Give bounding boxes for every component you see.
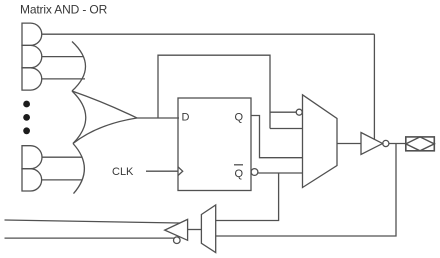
wire CLK to flip-flop [146,170,178,172]
wire output feedback down and left [216,144,396,237]
inversion bubble at mux input 1 [296,109,302,115]
svg-text:Q: Q [235,168,244,180]
wire feedback complement line to matrix [5,237,175,239]
io pad rhombus [406,137,435,151]
matrix ellipsis dot 3 [23,127,30,134]
wire A3 output to OR [42,78,85,80]
wire Q output to mux input 3 [251,116,303,158]
wire mux output to inverter [337,143,361,145]
and gate B2 [22,169,42,191]
and gate B1 (bottom group) [22,146,42,169]
inversion bubble on feedback buffer complement output [174,237,181,244]
wire A2 output to OR [42,56,84,58]
inversion bubble at Qbar output [251,169,258,176]
svg-text:Matrix AND - OR: Matrix AND - OR [20,3,108,17]
OR gate upper body arc to tip [72,91,137,118]
svg-text:Q: Q [235,112,244,124]
feedback select mux U4 [201,205,215,253]
OR gate scalloped input edge, top arc [72,42,86,92]
D flip-flop U1 body [178,98,251,191]
inversion bubble at inverter output [383,140,389,146]
io pad P1 [406,137,435,151]
wire Qbar to mux input 4 [258,172,303,174]
and gate A3 [22,68,42,90]
output select mux U2 [303,95,338,188]
wire OE vertical to tristate inverter [373,34,375,140]
wire feedback true line to matrix [5,220,181,223]
svg-text:D: D [182,112,190,124]
svg-text:CLK: CLK [112,166,134,178]
overline of Qbar [234,164,243,166]
and gate A1 (top) [22,23,42,45]
feedback buffer U5 (points left) [165,219,188,240]
and gate A2 [22,45,42,67]
clock triangle on U1 [178,167,183,176]
OR gate lower body arc to tip [73,118,137,144]
wire OR output to D input [137,117,179,119]
node: D-branch junction riser [158,55,270,128]
wire branch to mux input 1 (via bubble) [270,111,296,113]
tristate output inverter U3 [361,133,383,155]
wire branch to mux input 2 [270,128,303,130]
OR gate scallop, middle arc [72,91,86,144]
matrix ellipsis dot 2 [23,114,30,121]
wire B2 output to OR [42,179,82,181]
wire: OE product term from A1 across top [42,33,375,35]
wire Qbar branch down to feedback mux [216,173,279,221]
matrix ellipsis dot 1 [23,101,30,108]
wire B1 output to OR [42,156,83,158]
wire feedback mux output to buffer [188,229,202,231]
wire inverter to pad [389,143,406,145]
OR gate scallop, bottom arc [73,144,84,194]
